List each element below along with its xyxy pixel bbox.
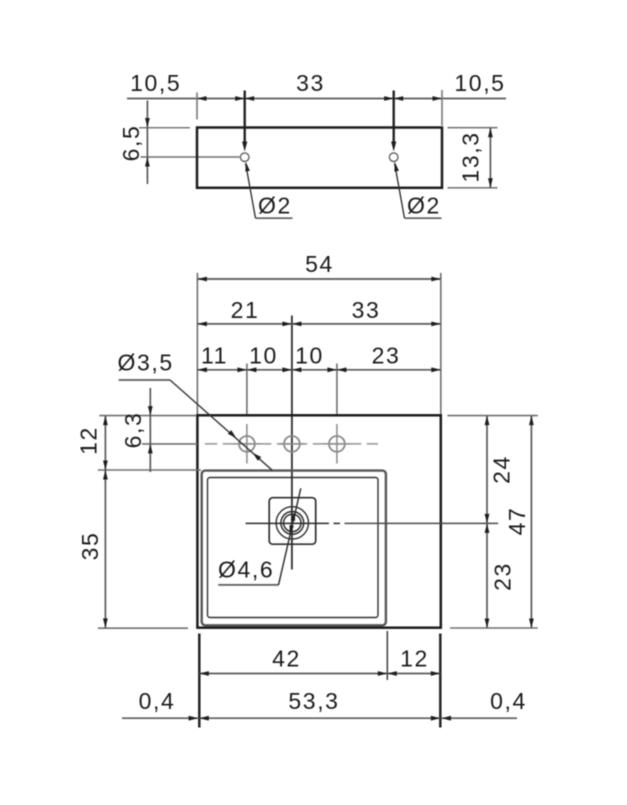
part outline (front) [197,128,442,188]
label 35 (rotated) [77,532,103,561]
hole axis line y=157 [141,156,240,158]
dim 21 / 33 line [197,323,440,325]
dashed centerline through small holes [205,443,378,445]
svg-text:10,5: 10,5 [454,70,505,96]
extension line x=336.9 [336,364,338,415]
recess outer edge [202,471,386,626]
svg-text:Ø2: Ø2 [407,193,441,219]
big arrow to hole 2 [391,142,396,152]
svg-text:0,4: 0,4 [490,688,527,714]
svg-text:0,4: 0,4 [139,688,176,714]
svg-text:53,3: 53,3 [288,688,339,714]
small hole 1 crosshair [246,424,248,464]
label 23 (rotated) [490,562,516,591]
svg-text:6,5: 6,5 [118,125,144,162]
label 6,3 (rotated) [120,412,146,449]
dim 0,4 right line [442,717,517,719]
extension dash at left edge x=197 [196,93,198,120]
extension line right x=440.8 [440,273,442,414]
svg-text:33: 33 [296,70,325,96]
leader O3,5 arrow upper [228,430,237,438]
solid centerline segment across hole 3 [324,443,350,445]
dim 6,3 line [149,388,151,472]
arrow right 10,5-right at 442 [433,96,443,101]
svg-text:6,3: 6,3 [120,412,146,449]
svg-text:13,3: 13,3 [458,131,484,182]
svg-text:10: 10 [295,343,324,369]
leader O2 left: diagonal [246,164,256,219]
circle outer [276,507,308,539]
bottom: extension left thick [198,634,201,728]
dim 53,3 line [199,717,440,719]
arrow 10,5-left at 197 [197,96,207,101]
leader O2 left: arrow [245,162,250,172]
dim 6,5 line [146,101,148,185]
circle inner (O4,6) [284,514,301,531]
solid centerline segment across hole 1 [234,443,260,445]
svg-text:11: 11 [201,343,228,369]
svg-text:Ø4,6: Ø4,6 [218,557,274,583]
bottom: extension right thick [439,634,442,728]
arrow 6,5 bottom (points up to 157) [145,157,150,167]
leader O3,5 arrow lower [253,453,261,461]
extension line x=246.9 [246,364,248,415]
arrow 13,3 bottom [488,178,493,188]
arrow right 10,5-left at 393.7 [394,96,404,101]
label 13,3 (rotated) [458,131,484,182]
svg-text:21: 21 [231,297,260,323]
left: extension y=628.2 [98,627,188,629]
svg-text:12: 12 [400,646,429,672]
small hole 3 (O3,5) [329,436,345,452]
dim 54 line [197,278,440,280]
square boss [269,498,316,545]
dim 0,4 left line [122,717,198,719]
svg-text:10: 10 [249,343,278,369]
dimension line 10,5 / 33 / 10,5 [127,98,506,100]
label 12 (rotated) [76,426,102,455]
centerline extension to left [142,443,198,445]
leader O3,5 diagonal [170,380,272,470]
arrow 6,5 top (points down to 127.5) [145,118,150,128]
small hole 1 (O3,5) [239,436,255,452]
dim 11 / 10 / 10 / 23 line [197,369,440,371]
label 47 (rotated) [504,507,530,536]
svg-text:33: 33 [352,297,381,323]
small hole 2 (O3,5) [284,436,300,452]
svg-text:47: 47 [504,507,530,536]
svg-text:Ø3,5: Ø3,5 [118,350,174,376]
dim 35 line [104,470,106,628]
arrow 13,3 top [488,128,493,138]
dim 24/23 line [486,416,488,628]
big arrow to hole 1 [242,142,247,152]
left: extension y=415.6 [99,415,196,417]
leader O2 left: underline [256,217,293,219]
leader O4,6 arrow lower [290,525,294,534]
dim 42 / 12 line [199,673,440,675]
leader O3,5 underline [119,379,170,381]
circle middle [281,512,304,535]
svg-text:24: 24 [489,455,515,484]
arrow 10,5-right at 244.7 [235,96,245,101]
leader O4,6 arrow upper [291,512,295,521]
dim 12 line [104,416,106,470]
hole centerline extension stems (thick) [243,91,245,144]
left: extension y=470 [98,469,201,471]
leader O4,6 diagonal [279,488,301,585]
center extension line x=291.9 [291,316,293,570]
svg-text:54: 54 [305,251,334,277]
dim 13,3 line [489,128,491,188]
13,3 extension lines [448,127,498,129]
center crosshair horizontal [246,522,330,524]
extension at right edge x=442 [441,90,443,126]
solid centerline segment across hole 2 [279,443,305,445]
part outline (plan) [197,415,440,627]
label 24 (rotated) [489,455,515,484]
arrow 33-left at 244.7 [245,96,255,101]
dim 47 line [530,416,532,628]
leader O2 right: underline [405,217,442,219]
arrow 33-right at 393.7 [384,96,394,101]
recess inner edge [208,478,379,618]
svg-text:23: 23 [490,562,516,591]
right: extension y=415.6 [447,415,537,417]
small hole 3 crosshair [336,424,338,464]
svg-text:12: 12 [76,426,102,455]
extension line left x=197.4 [196,273,198,414]
label 6,5 (rotated) [118,125,144,162]
hole 2 (side, O2) [389,153,398,162]
leader O2 right: arrow [394,162,399,172]
svg-text:42: 42 [272,646,301,672]
top edge extension to the left [139,127,190,129]
svg-text:10,5: 10,5 [130,70,181,96]
leader O2 right: diagonal [395,164,405,219]
svg-text:Ø2: Ø2 [258,193,292,219]
bottom: extension x=387.3 [386,631,388,680]
leader O4,6 underline [218,584,278,586]
svg-text:35: 35 [77,532,103,561]
right: extension y=628 [450,627,538,629]
hole 1 (side, O2) [240,153,249,162]
svg-text:23: 23 [372,343,401,369]
